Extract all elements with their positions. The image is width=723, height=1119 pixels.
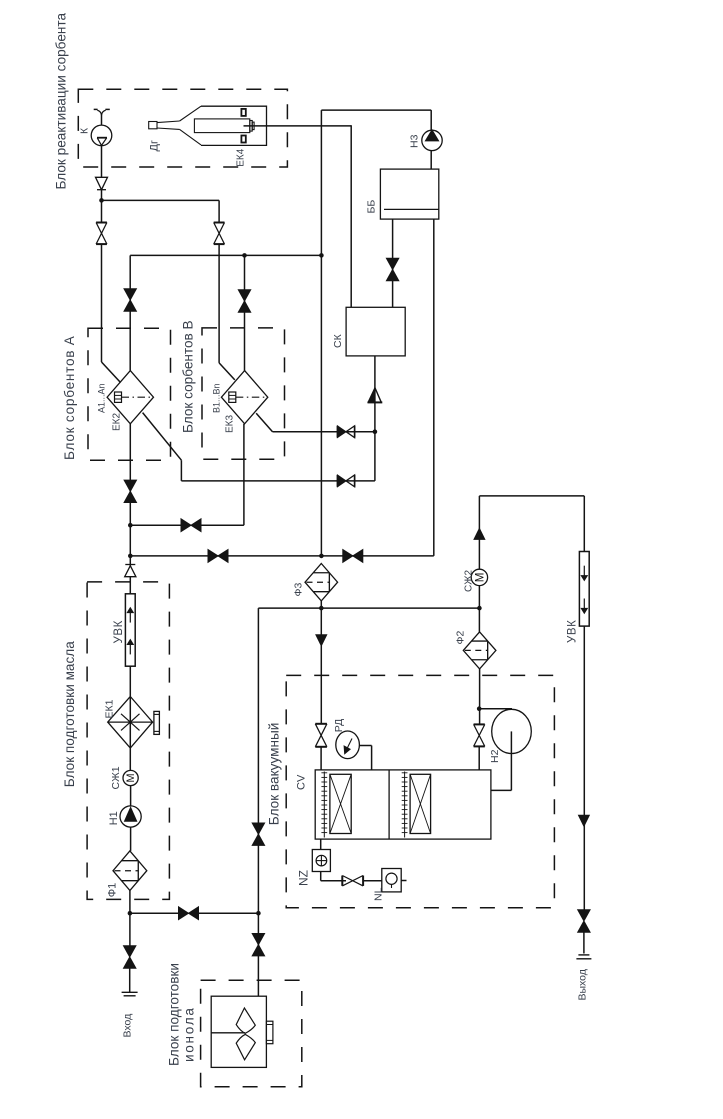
svg-text:ЕК2: ЕК2 [112,413,123,431]
svg-text:Выход: Выход [577,969,589,1000]
svg-text:Н2: Н2 [489,749,501,763]
svg-text:СЖ1: СЖ1 [110,766,122,789]
svg-text:А1...Аn: А1...Аn [97,383,107,413]
svg-text:ББ: ББ [366,200,378,214]
svg-text:СV: СV [296,774,308,790]
svg-text:NZ: NZ [297,870,311,886]
svg-text:Н1: Н1 [108,811,120,825]
svg-text:М: М [473,573,486,583]
svg-text:Н3: Н3 [409,134,421,148]
svg-text:К: К [79,127,91,134]
svg-text:ионола: ионола [182,1006,197,1062]
svg-text:Блок подготовки масла: Блок подготовки масла [62,641,77,787]
svg-text:Блок сорбентов В: Блок сорбентов В [181,320,196,433]
svg-text:ЕК4: ЕК4 [236,148,247,166]
svg-text:В1...Вn: В1...Вn [212,383,222,413]
svg-text:УВК: УВК [113,620,125,643]
svg-text:Блок реактивации сорбента: Блок реактивации сорбента [54,13,69,190]
svg-text:СК: СК [332,333,344,348]
svg-text:СЖ2: СЖ2 [464,570,475,592]
svg-text:УВК: УВК [567,620,579,643]
svg-text:ЕК3: ЕК3 [225,415,236,433]
svg-text:Вход: Вход [122,1014,134,1038]
svg-text:Блок подготовки: Блок подготовки [167,963,182,1066]
svg-text:РД: РД [333,719,345,732]
svg-text:NL: NL [373,887,385,901]
svg-text:М: М [125,774,137,783]
svg-text:Ф3: Ф3 [293,583,305,597]
svg-text:Ф1: Ф1 [107,883,119,897]
svg-text:Блок вакуумный: Блок вакуумный [267,723,282,826]
svg-text:Блок сорбентов А: Блок сорбентов А [62,335,77,460]
svg-text:Дг: Дг [149,140,161,151]
svg-text:ЕК1: ЕК1 [104,699,116,718]
svg-text:Ф2: Ф2 [455,631,467,645]
